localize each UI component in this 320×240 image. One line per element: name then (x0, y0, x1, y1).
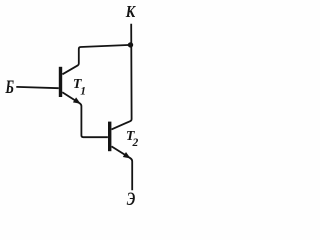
svg-text:2: 2 (132, 137, 139, 149)
svg-text:Э: Э (127, 190, 136, 207)
svg-text:Б: Б (5, 76, 15, 98)
svg-text:1: 1 (80, 86, 86, 98)
svg-text:К: К (125, 2, 137, 21)
